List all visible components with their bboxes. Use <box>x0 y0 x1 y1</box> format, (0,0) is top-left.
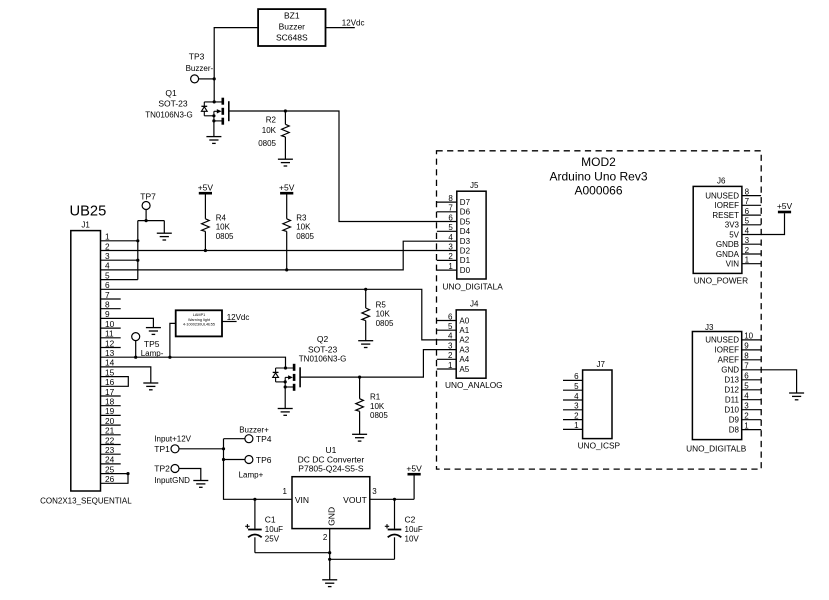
svg-text:InputGND: InputGND <box>154 476 190 485</box>
ground (Q2 source) <box>278 409 293 416</box>
test point TP3 <box>186 52 214 83</box>
svg-text:10uF: 10uF <box>405 525 423 534</box>
svg-text:3: 3 <box>448 243 453 252</box>
wire J1 pins 15-16 joined <box>101 377 129 387</box>
svg-text:BZ1: BZ1 <box>284 11 300 21</box>
svg-text:D6: D6 <box>460 208 471 217</box>
wire J3 pin 9 stub <box>742 349 762 351</box>
wire J4 pin 5 stub <box>437 329 456 331</box>
svg-text:TP6: TP6 <box>256 455 272 465</box>
svg-text:D12: D12 <box>724 386 739 395</box>
svg-text:11: 11 <box>105 329 114 339</box>
wire J1 pin 13 net Lamp- to Q2 drain <box>101 356 286 368</box>
ground (J1 pin 9) <box>146 328 161 335</box>
svg-text:AREF: AREF <box>718 356 739 365</box>
svg-text:8: 8 <box>105 300 110 310</box>
wire J3 pin 7 (GND) to ground <box>742 370 797 393</box>
svg-text:D1: D1 <box>460 256 471 265</box>
svg-text:UB25: UB25 <box>70 204 107 220</box>
svg-text:R4: R4 <box>216 213 227 222</box>
svg-text:A3: A3 <box>459 345 469 354</box>
svg-text:0805: 0805 <box>376 319 394 328</box>
wire J5 pin 8 stub <box>437 201 457 203</box>
svg-text:16: 16 <box>105 377 115 387</box>
svg-text:17: 17 <box>105 387 115 397</box>
test point TP6 <box>239 455 272 480</box>
wire J3 pin 8 stub <box>742 359 762 361</box>
svg-text:D4: D4 <box>460 227 471 236</box>
wire J3 pin 2 stub <box>742 419 762 421</box>
svg-text:GND: GND <box>327 507 337 526</box>
svg-text:D9: D9 <box>729 416 740 425</box>
wire TP5 stem <box>135 341 137 358</box>
test point TP4 <box>239 425 272 444</box>
svg-text:13: 13 <box>105 348 115 358</box>
wire J4 pin 2 stub <box>437 358 456 360</box>
svg-text:12: 12 <box>105 338 115 348</box>
svg-text:UNUSED: UNUSED <box>705 191 739 200</box>
svg-text:21: 21 <box>105 426 115 436</box>
svg-text:UNO_POWER: UNO_POWER <box>694 276 748 286</box>
svg-text:10uF: 10uF <box>265 525 283 534</box>
wire J1 pin 10 stub <box>101 327 121 329</box>
wire Q2 gate net to R1 and J4 A3 <box>300 350 456 379</box>
capacitor C1 <box>245 499 283 552</box>
svg-text:2: 2 <box>323 533 328 542</box>
lamp LAMP1 <box>176 310 222 336</box>
wire ground bus under U1 <box>255 529 395 580</box>
svg-text:4-1000230UL4E55: 4-1000230UL4E55 <box>183 323 215 327</box>
svg-text:J5: J5 <box>470 181 479 190</box>
svg-text:RESET: RESET <box>712 211 739 220</box>
svg-text:19: 19 <box>105 406 115 416</box>
ground (J1 pin 14) <box>143 383 158 390</box>
svg-text:3: 3 <box>372 487 377 496</box>
ground (R1) <box>352 434 367 441</box>
wire J7 pin 5 stub <box>563 389 583 391</box>
svg-text:GNDB: GNDB <box>716 240 739 249</box>
resistor R2 <box>258 111 289 159</box>
wire J1 pin 7 stub <box>101 298 121 300</box>
svg-text:6: 6 <box>448 213 453 222</box>
module MOD2 dashed outline <box>437 151 762 469</box>
svg-text:0805: 0805 <box>370 411 388 420</box>
svg-text:A5: A5 <box>459 365 469 374</box>
connector J1 pin numbers 1-26 <box>105 232 115 485</box>
svg-text:UNUSED: UNUSED <box>705 336 739 345</box>
wire J6 pin 8 stub <box>742 195 761 197</box>
svg-text:IOREF: IOREF <box>715 346 740 355</box>
wire J3 pin 6 stub <box>742 379 762 381</box>
svg-text:10K: 10K <box>296 223 311 232</box>
svg-text:9: 9 <box>105 309 110 319</box>
wire J1 pin 23 stub <box>101 453 121 455</box>
svg-text:TP7: TP7 <box>140 191 156 201</box>
wire J3 pin 5 stub <box>742 389 762 391</box>
svg-text:U1: U1 <box>325 445 336 455</box>
transistor Q1 <box>145 88 229 125</box>
svg-text:D2: D2 <box>460 247 471 256</box>
svg-text:Q2: Q2 <box>317 334 329 344</box>
wire U1 VOUT to +5V <box>370 475 414 501</box>
wire J5 pin 2 stub <box>437 259 457 261</box>
svg-text:4: 4 <box>448 332 453 341</box>
svg-text:7: 7 <box>105 290 110 300</box>
wire J4 pin 6 stub <box>437 320 456 322</box>
ground (R5) <box>358 341 373 348</box>
svg-text:10: 10 <box>105 319 115 329</box>
wire J1 pin 5 <box>101 279 138 281</box>
transistor Q2 <box>273 334 347 391</box>
connector J5 <box>448 181 486 279</box>
wire J7 pin 2 stub <box>563 419 583 421</box>
connector J4 <box>448 299 486 378</box>
resistor R3 <box>283 195 315 270</box>
svg-text:Arduino Uno Rev3: Arduino Uno Rev3 <box>549 170 647 184</box>
wire J7 pin 3 stub <box>563 409 583 411</box>
svg-text:+5V: +5V <box>777 201 793 211</box>
power 12Vdc (buzzer) <box>326 19 365 28</box>
wire J1 pin 12 stub <box>101 347 121 349</box>
wire Q1 source to ground <box>213 121 215 137</box>
buzzer BZ1 <box>258 9 325 46</box>
test point TP5 <box>132 333 164 359</box>
svg-text:4: 4 <box>105 261 110 271</box>
svg-text:R1: R1 <box>370 393 381 402</box>
svg-text:TP5: TP5 <box>144 339 160 349</box>
test point TP7 <box>140 191 156 209</box>
svg-text:14: 14 <box>105 358 115 368</box>
svg-text:A2: A2 <box>459 336 469 345</box>
svg-text:0805: 0805 <box>258 139 276 148</box>
wire J6 pin 1 stub <box>742 263 761 265</box>
wire Q2 source to ground <box>284 387 286 409</box>
svg-text:TP3: TP3 <box>189 52 205 62</box>
svg-text:UNO_ICSP: UNO_ICSP <box>578 440 621 450</box>
wire J7 pin 4 stub <box>563 399 583 401</box>
ground (Q1 source) <box>206 137 221 144</box>
svg-text:D5: D5 <box>460 217 471 226</box>
svg-text:SOT-23: SOT-23 <box>308 344 338 354</box>
svg-text:UNO_DIGITALA: UNO_DIGITALA <box>443 281 504 291</box>
svg-text:LAMP1: LAMP1 <box>193 313 205 317</box>
wire Q1 gate net to R2 and J5 D5 <box>229 109 457 221</box>
svg-text:18: 18 <box>105 397 115 407</box>
svg-text:5V: 5V <box>729 230 739 239</box>
wire J6 pin 4 (5V) to +5V <box>742 213 785 234</box>
svg-text:P7805-Q24-S5-S: P7805-Q24-S5-S <box>298 464 364 474</box>
svg-text:D3: D3 <box>460 237 471 246</box>
wire J6 pin 7 stub <box>742 204 761 206</box>
svg-text:1: 1 <box>105 232 110 242</box>
ground (J3) <box>789 393 804 400</box>
svg-text:R5: R5 <box>376 300 387 309</box>
wire J6 pin 2 stub <box>742 253 761 255</box>
power 12Vdc (lamp) <box>222 313 249 322</box>
wire J3 pin 10 stub <box>742 339 762 341</box>
svg-text:+5V: +5V <box>406 464 422 474</box>
ground (R2) <box>278 159 293 166</box>
wire J1 pin 3 <box>101 259 140 262</box>
svg-text:R3: R3 <box>296 213 307 222</box>
wire J4 pin 1 stub <box>437 368 456 370</box>
svg-text:A1: A1 <box>459 326 469 335</box>
capacitor C2 <box>385 499 423 559</box>
svg-text:25V: 25V <box>265 534 280 543</box>
svg-text:12Vdc: 12Vdc <box>227 313 250 322</box>
regulator U1 <box>283 445 378 542</box>
svg-text:D13: D13 <box>724 376 739 385</box>
connector J7 <box>574 360 612 439</box>
svg-text:10K: 10K <box>376 310 391 319</box>
svg-text:MOD2: MOD2 <box>581 155 616 169</box>
wire J1 pin 2 bus to J5 D2 <box>101 249 457 252</box>
wire J1 pin 17 stub <box>101 395 121 397</box>
svg-text:3V3: 3V3 <box>725 221 740 230</box>
test point TP1 <box>154 435 191 454</box>
resistor R1 <box>356 377 389 434</box>
svg-text:J1: J1 <box>81 221 90 230</box>
svg-text:24: 24 <box>105 455 115 465</box>
svg-text:TP4: TP4 <box>256 434 272 444</box>
svg-text:Q1: Q1 <box>165 88 177 98</box>
wire J1 pin 9 to ground <box>101 318 154 327</box>
wire TP3 stub <box>199 78 215 80</box>
wire TP7 to ground and pins 1,3,5 <box>138 210 165 280</box>
connector J6 <box>693 176 749 273</box>
svg-text:D8: D8 <box>729 425 740 434</box>
svg-text:10K: 10K <box>370 402 385 411</box>
wire J1 pin 24 stub <box>101 463 121 465</box>
svg-text:J7: J7 <box>597 360 606 369</box>
wire J5 pin 5 stub <box>437 230 457 232</box>
wire J1 pins 25-26 joined <box>101 472 130 483</box>
svg-text:23: 23 <box>105 445 115 455</box>
resistor R5 <box>362 289 394 340</box>
power +5V (R3) <box>279 183 295 194</box>
svg-text:26: 26 <box>105 474 115 484</box>
wire J1 pin 20 stub <box>101 424 121 426</box>
svg-text:12Vdc: 12Vdc <box>342 19 365 28</box>
wire J6 pin 6 stub <box>742 214 761 216</box>
svg-text:D11: D11 <box>725 396 740 405</box>
svg-text:A000066: A000066 <box>574 183 622 197</box>
svg-text:R2: R2 <box>266 115 277 124</box>
wire input +12V node to U1 VIN <box>179 439 292 501</box>
svg-text:20: 20 <box>105 416 115 426</box>
svg-text:J4: J4 <box>470 299 479 308</box>
svg-text:Buzzer-: Buzzer- <box>186 64 214 73</box>
module MOD2 title <box>549 155 647 197</box>
svg-text:A4: A4 <box>459 355 469 364</box>
svg-text:25: 25 <box>105 464 115 474</box>
wire lamp to pin13 net <box>170 323 176 357</box>
svg-text:D10: D10 <box>724 406 739 415</box>
svg-text:+5V: +5V <box>198 183 214 193</box>
svg-text:Lamp+: Lamp+ <box>239 471 264 480</box>
wire J1 pin 8 stub <box>101 308 121 310</box>
svg-text:3: 3 <box>448 341 453 350</box>
svg-text:Buzzer: Buzzer <box>279 22 306 32</box>
power +5V (J6) <box>777 201 793 212</box>
wire buzzer- : BZ1 to Q1 drain <box>213 28 259 102</box>
svg-text:TN0106N3-G: TN0106N3-G <box>299 355 347 364</box>
svg-text:SOT-23: SOT-23 <box>158 98 188 108</box>
wire J1 pin 21 stub <box>101 434 121 436</box>
wire J5 pin 1 stub <box>437 269 457 271</box>
svg-text:Warning light: Warning light <box>188 318 211 322</box>
svg-text:0805: 0805 <box>296 232 314 241</box>
svg-text:TP2: TP2 <box>154 464 170 474</box>
wire J1 pin 1 <box>101 239 140 242</box>
wire J3 pin 1 stub <box>742 429 762 431</box>
wire J3 pin 3 stub <box>742 409 762 411</box>
svg-text:A0: A0 <box>459 316 469 325</box>
svg-text:+5V: +5V <box>279 183 295 193</box>
svg-text:6: 6 <box>105 280 110 290</box>
wire J7 pin 1 stub <box>563 428 583 430</box>
wire J1 pin 19 stub <box>101 414 121 416</box>
wire J5 pin 7 stub <box>437 211 457 213</box>
wire J1 pin 18 stub <box>101 405 121 407</box>
svg-text:15: 15 <box>105 367 115 377</box>
svg-text:10K: 10K <box>216 223 231 232</box>
wire J1 pin 22 stub <box>101 444 121 446</box>
svg-text:TP1: TP1 <box>154 444 170 454</box>
svg-text:3: 3 <box>105 251 110 261</box>
wire J6 pin 3 stub <box>742 243 761 245</box>
ground (U1) <box>322 580 337 587</box>
svg-text:Lamp-: Lamp- <box>141 349 164 358</box>
svg-text:UNO_DIGITALB: UNO_DIGITALB <box>686 443 747 453</box>
power +5V (R4) <box>198 183 214 194</box>
svg-text:10K: 10K <box>262 126 277 135</box>
ground (TP2) <box>193 481 208 488</box>
svg-text:IOREF: IOREF <box>715 201 740 210</box>
svg-text:SC648S: SC648S <box>276 33 308 43</box>
wire J3 pin 4 stub <box>742 399 762 401</box>
svg-text:VIN: VIN <box>726 260 740 269</box>
svg-text:4: 4 <box>448 233 453 242</box>
connector J1 designators <box>70 204 107 230</box>
svg-text:C2: C2 <box>405 515 416 525</box>
power +5V (VOUT) <box>406 464 422 475</box>
svg-text:10V: 10V <box>405 534 420 543</box>
wire J7 pin 6 stub <box>563 379 583 381</box>
wire J6 pin 5 stub <box>742 224 761 226</box>
wire J1 pin 4 bus to J5 D3 <box>101 241 457 271</box>
svg-text:5: 5 <box>105 270 110 280</box>
connector J1 body <box>71 231 101 491</box>
svg-text:J6: J6 <box>717 176 726 185</box>
wire J1 pin 6 bus to J4 A2 <box>101 288 457 340</box>
wire TP2 to ground <box>179 469 201 481</box>
svg-text:GNDA: GNDA <box>716 250 740 259</box>
svg-text:0805: 0805 <box>216 232 234 241</box>
wire J1 pin 14 to ground <box>101 367 151 383</box>
svg-text:J3: J3 <box>705 323 714 332</box>
svg-text:UNO_ANALOG: UNO_ANALOG <box>445 380 503 390</box>
svg-text:CON2X13_SEQUENTIAL: CON2X13_SEQUENTIAL <box>40 496 132 505</box>
ground (TP7) <box>157 233 172 240</box>
svg-text:GND: GND <box>721 366 739 375</box>
svg-text:22: 22 <box>105 435 115 445</box>
svg-text:D7: D7 <box>460 198 471 207</box>
svg-text:VOUT: VOUT <box>343 495 367 505</box>
svg-text:Input+12V: Input+12V <box>154 435 191 444</box>
svg-text:1: 1 <box>283 487 288 496</box>
svg-text:C1: C1 <box>265 515 276 525</box>
test point TP2 <box>154 464 190 485</box>
svg-text:D0: D0 <box>460 266 471 275</box>
svg-text:2: 2 <box>105 241 110 251</box>
svg-text:VIN: VIN <box>295 495 309 505</box>
resistor R4 <box>202 195 234 251</box>
connector J3 <box>692 323 753 440</box>
svg-text:TN0106N3-G: TN0106N3-G <box>145 110 193 119</box>
wire J1 pin 11 stub <box>101 337 121 339</box>
